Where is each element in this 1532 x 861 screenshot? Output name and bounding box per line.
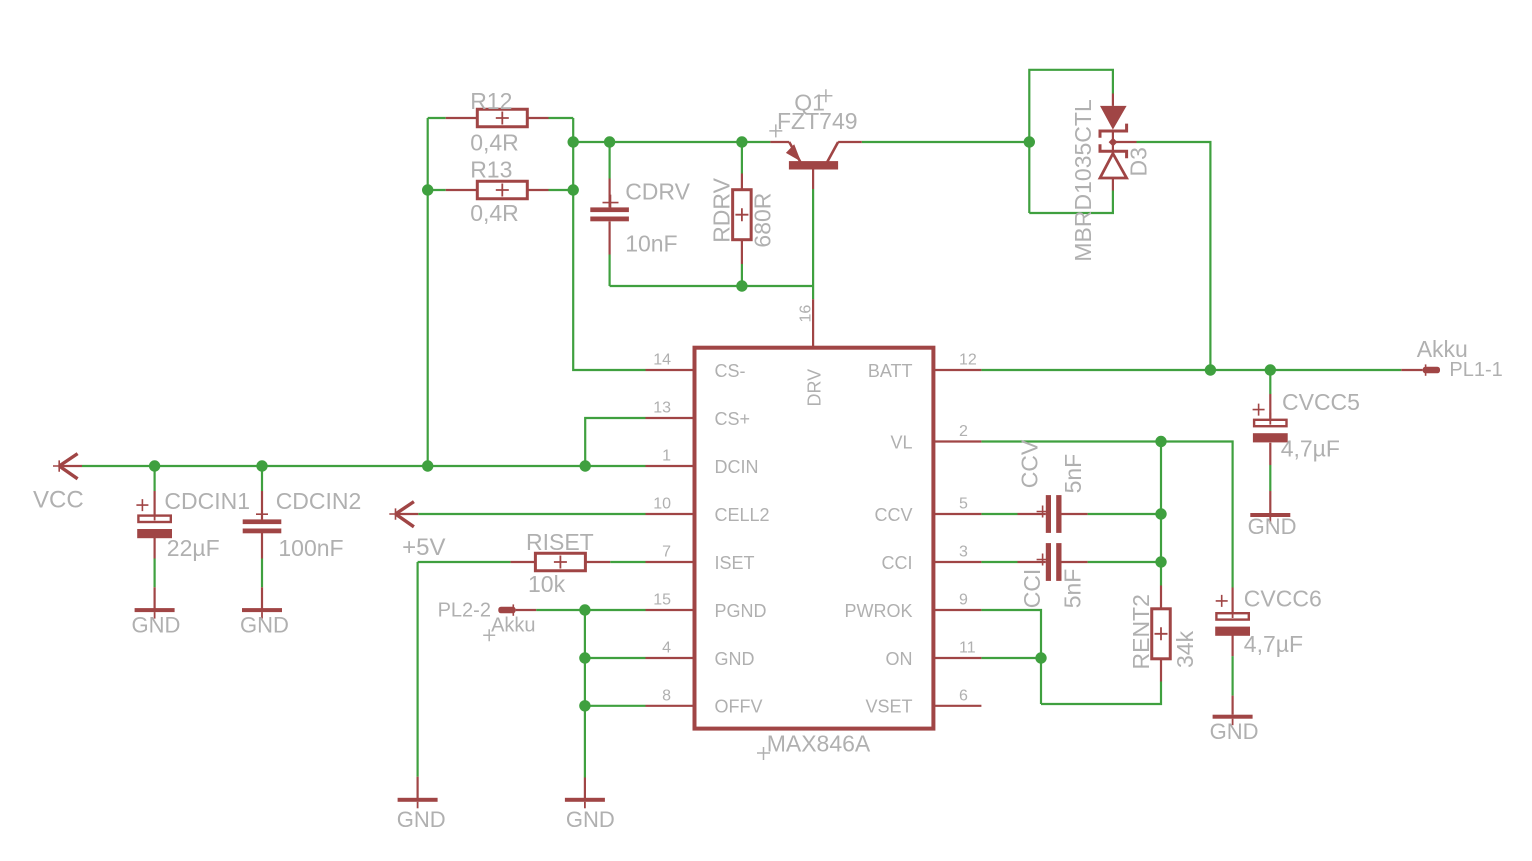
pin 7 ISET stub	[646, 561, 695, 563]
capacitor CVCC6 (polarized)	[1215, 606, 1250, 636]
resistor R12	[477, 109, 527, 127]
lead D3 mid	[1112, 132, 1114, 151]
svg-text:PWROK: PWROK	[844, 601, 912, 621]
junction R13 right	[568, 184, 579, 195]
lead CDRV top	[608, 179, 610, 208]
lead RENT2 top	[1160, 586, 1162, 610]
pin 13 CS+ stub	[646, 417, 695, 419]
svg-text:GND: GND	[1210, 719, 1259, 744]
diode D3 MBRD1035CTL upper (filled)	[1100, 106, 1127, 138]
svg-text:14: 14	[653, 352, 671, 369]
svg-text:GND: GND	[132, 613, 181, 638]
capacitor CDCIN2	[243, 519, 282, 533]
capacitor CDCIN1 (polarized)	[137, 508, 172, 538]
PL2-2 origin cross (gray)	[483, 629, 495, 641]
wire CS+ down to rail	[585, 418, 645, 466]
svg-text:7: 7	[662, 544, 671, 561]
svg-text:13: 13	[653, 400, 671, 417]
wire ON row	[981, 657, 1041, 659]
svg-text:3: 3	[959, 544, 968, 561]
wire CVCC5 bottom	[1269, 465, 1271, 491]
wire R13 right lead net	[549, 189, 574, 191]
svg-text:2: 2	[959, 423, 968, 440]
svg-text:Akku: Akku	[491, 614, 535, 636]
lead R12 right	[527, 117, 548, 119]
svg-text:BATT: BATT	[868, 361, 913, 381]
svg-text:4: 4	[662, 640, 671, 657]
wire CDCIN1 top	[154, 466, 156, 491]
wire CDRV top	[608, 142, 610, 179]
svg-text:5nF: 5nF	[1060, 569, 1086, 609]
svg-text:CDCIN1: CDCIN1	[164, 488, 250, 514]
wire DRV emitter net	[573, 141, 770, 143]
lead D3 tap	[1113, 141, 1137, 143]
wire CCV right	[1088, 513, 1161, 515]
junction ON-PWROK	[1035, 652, 1046, 663]
connector PL2-2 pin	[498, 604, 515, 615]
ground (below RISET)	[398, 798, 438, 809]
wire D3 frame left	[1029, 70, 1113, 213]
wire CDCIN2 top	[261, 466, 263, 491]
svg-text:RDRV: RDRV	[709, 177, 735, 242]
svg-text:CCI: CCI	[882, 553, 913, 573]
junction DRV-RDRV	[736, 136, 747, 147]
Q1 origin crosses (gray)	[769, 89, 832, 137]
lead CDCIN1 bottom	[154, 538, 156, 559]
svg-text:MBRD1035CTL: MBRD1035CTL	[1070, 99, 1096, 262]
capacitor CVCC5 (polarized)	[1253, 413, 1288, 443]
wire CDRV bottom	[608, 255, 610, 287]
lead GND below ISET	[417, 777, 419, 798]
pin 10 CELL2 stub	[646, 513, 695, 515]
resistor RISET	[535, 553, 585, 571]
junction DRV-CDRV	[604, 136, 615, 147]
svg-text:22µF: 22µF	[167, 535, 220, 561]
pin 9 PWROK stub	[933, 609, 981, 611]
lead CVCC6 top	[1231, 588, 1233, 613]
pin 5 CCV stub	[933, 513, 981, 515]
transistor Q1 FZT749 (PNP)	[786, 142, 862, 189]
svg-text:ON: ON	[886, 649, 913, 669]
junction R13 left	[422, 184, 433, 195]
lead CDCIN2 gnd	[261, 587, 263, 608]
junction DRV-R12	[568, 136, 579, 147]
wire Q1 base to DRV pin	[812, 189, 814, 299]
svg-text:DCIN: DCIN	[715, 457, 759, 477]
pin 2 VL stub	[933, 440, 981, 442]
lead RISET right	[586, 561, 610, 563]
junction RDRV bottom	[736, 280, 747, 291]
svg-text:10k: 10k	[528, 571, 566, 597]
junction CCV right	[1155, 508, 1166, 519]
svg-text:OFFV: OFFV	[715, 697, 763, 717]
lead CVCC6 gnd	[1231, 696, 1233, 715]
lead CDCIN1 gnd	[154, 587, 156, 608]
wire CCV left	[981, 513, 1017, 515]
lead D3 top	[1112, 94, 1114, 106]
lead PL2-2	[516, 609, 537, 611]
svg-text:4,7µF: 4,7µF	[1281, 436, 1340, 462]
svg-text:GND: GND	[240, 613, 289, 638]
wire D3 tap to BATT	[1137, 142, 1211, 370]
svg-text:16: 16	[798, 305, 815, 323]
ground (CDCIN1)	[135, 608, 175, 619]
resistor RENT2	[1152, 609, 1171, 659]
wire collector to D3	[862, 141, 1030, 143]
svg-text:15: 15	[653, 592, 671, 609]
junction VCC-R vertical	[422, 460, 433, 471]
lead CDCIN2 bottom	[261, 533, 263, 559]
svg-text:11: 11	[959, 640, 976, 657]
lead CCV right	[1061, 513, 1087, 515]
svg-text:PL2-2: PL2-2	[438, 599, 491, 621]
svg-text:5: 5	[959, 496, 968, 513]
pin 14 CS- stub	[646, 369, 695, 371]
lead Q1 emitter horiz	[770, 141, 789, 143]
wire bottom route to RENT2	[1041, 682, 1161, 705]
wire CDCIN2 bottom	[261, 559, 263, 588]
svg-text:DRV: DRV	[805, 369, 825, 407]
lead RISET left	[511, 561, 535, 563]
svg-text:RISET: RISET	[526, 529, 594, 555]
junction VCC-CDCIN1	[149, 460, 160, 471]
junction PGND-PL2-2	[579, 604, 590, 615]
wire CVCC5 top	[1269, 370, 1271, 394]
lead CVCC5 top	[1269, 394, 1271, 419]
supply arrow +5V	[389, 502, 418, 527]
svg-text:RENT2: RENT2	[1128, 594, 1154, 669]
junction BATT-D3 tap	[1205, 364, 1216, 375]
svg-text:CS-: CS-	[715, 361, 746, 381]
op-amp U1 MAX846A body	[695, 348, 934, 729]
svg-text:12: 12	[959, 352, 977, 369]
svg-text:GND: GND	[1248, 514, 1297, 539]
junction VL vertical	[1155, 436, 1166, 447]
pin 6 VSET stub	[933, 705, 981, 707]
lead R13 left	[446, 189, 478, 191]
wire CDRV-RDRV bottom rail	[610, 285, 814, 287]
capacitor CDRV	[590, 207, 629, 221]
wire R12 left lead net	[428, 117, 446, 119]
svg-text:1: 1	[662, 448, 671, 465]
lead PL1-1	[1401, 369, 1422, 371]
svg-text:100nF: 100nF	[278, 535, 343, 561]
svg-text:VSET: VSET	[865, 697, 912, 717]
wire GND pin row	[585, 657, 646, 659]
wire RDRV top	[741, 142, 743, 174]
ground (CVCC6)	[1213, 715, 1253, 726]
svg-text:34k: 34k	[1172, 630, 1198, 668]
pin 1 DCIN stub	[646, 465, 695, 467]
supply arrow VCC	[53, 454, 82, 479]
svg-text:CDCIN2: CDCIN2	[276, 488, 362, 514]
lead RDRV bottom	[741, 240, 743, 264]
svg-text:PGND: PGND	[715, 601, 767, 621]
wire PGND vertical to GND	[584, 610, 586, 778]
svg-text:CVCC6: CVCC6	[1244, 585, 1322, 611]
wire RDRV bottom	[741, 264, 743, 286]
pin 4 GND stub	[646, 657, 695, 659]
svg-text:0,4R: 0,4R	[470, 200, 519, 226]
svg-text:PL1-1: PL1-1	[1449, 359, 1502, 381]
pin 11 ON stub	[933, 657, 981, 659]
svg-text:GND: GND	[566, 807, 615, 832]
svg-text:ISET: ISET	[715, 553, 755, 573]
wire CDCIN1 bottom	[154, 559, 156, 588]
svg-text:CELL2: CELL2	[715, 505, 770, 525]
junction CCI right	[1155, 556, 1166, 567]
svg-text:CDRV: CDRV	[625, 179, 690, 205]
ground (below PGND)	[565, 798, 605, 809]
svg-text:8: 8	[662, 687, 671, 704]
wire VL-CCV-CCI vertical	[1160, 442, 1162, 586]
wire ISET row	[418, 561, 511, 563]
wire PWROK route	[981, 610, 1041, 704]
svg-text:CCV: CCV	[1016, 439, 1042, 488]
wire ISET corner to GND	[417, 562, 419, 777]
IC origin cross	[757, 747, 770, 760]
svg-text:FZT749: FZT749	[777, 108, 858, 134]
svg-text:Akku: Akku	[1417, 336, 1468, 362]
svg-text:R13: R13	[470, 157, 512, 183]
junction VCC-CDCIN2	[256, 460, 267, 471]
svg-text:GND: GND	[715, 649, 755, 669]
wire CVCC6 bottom	[1231, 656, 1233, 696]
pin 3 CCI stub	[933, 561, 981, 563]
svg-text:10: 10	[653, 496, 671, 513]
wire +5V to CELL2	[418, 513, 645, 515]
lead CCI left	[1018, 561, 1046, 563]
svg-text:GND: GND	[397, 807, 446, 832]
junction OFFV pin	[579, 700, 590, 711]
wire R12 right lead net	[549, 117, 574, 119]
svg-text:R12: R12	[470, 88, 512, 114]
lead CVCC5 bottom	[1269, 443, 1271, 465]
pin 12 BATT stub	[933, 369, 981, 371]
junction VCC-CS+	[580, 460, 591, 471]
svg-text:5nF: 5nF	[1060, 454, 1086, 494]
svg-text:CCV: CCV	[874, 505, 912, 525]
resistor R13	[477, 181, 527, 199]
svg-text:VCC: VCC	[33, 487, 84, 514]
lead DRV pin 16	[812, 299, 814, 348]
wire VCC rail	[82, 465, 646, 467]
svg-text:MAX846A: MAX846A	[767, 731, 871, 757]
pin 8 OFFV stub	[646, 705, 695, 707]
wire R13 left lead net	[428, 189, 446, 191]
svg-text:D3: D3	[1125, 147, 1151, 176]
wire OFFV pin row	[585, 705, 646, 707]
wire left vertical R12-R13-DCIN	[427, 118, 429, 466]
capacitor CCI	[1046, 543, 1062, 581]
wire RISET to ISET pin	[610, 561, 645, 563]
junction collector-D3	[1024, 136, 1035, 147]
svg-text:CCI: CCI	[1019, 569, 1045, 609]
svg-text:6: 6	[959, 687, 968, 704]
svg-text:9: 9	[959, 592, 968, 609]
connector PL1-1 pin	[1423, 364, 1440, 375]
svg-text:10nF: 10nF	[625, 231, 677, 257]
lead RENT2 bottom	[1160, 658, 1162, 682]
svg-text:4,7µF: 4,7µF	[1244, 631, 1303, 657]
pin 15 PGND stub	[646, 609, 695, 611]
lead CVCC6 bottom	[1231, 634, 1233, 656]
svg-text:CVCC5: CVCC5	[1282, 389, 1360, 415]
wire CCI left	[981, 561, 1017, 563]
lead GND below PGND	[584, 778, 586, 799]
capacitor CCV	[1046, 495, 1062, 533]
junction GND pin	[579, 652, 590, 663]
lead CDCIN2 top	[261, 491, 263, 519]
svg-text:CS+: CS+	[715, 409, 751, 429]
ground (CDCIN2)	[242, 608, 282, 619]
wire BATT row	[981, 369, 1401, 371]
svg-text:680R: 680R	[749, 193, 775, 248]
resistor RDRV	[733, 190, 752, 240]
wire D3 frame bottom	[1029, 191, 1113, 214]
svg-text:0,4R: 0,4R	[470, 130, 519, 156]
svg-text:+5V: +5V	[402, 534, 445, 561]
junction BATT-CVCC5	[1265, 364, 1276, 375]
lead CVCC5 gnd	[1269, 491, 1271, 513]
wire right vertical R12-R13-CS-	[573, 118, 645, 370]
diode D3 lower (hollow)	[1100, 144, 1127, 178]
wire VL row	[981, 442, 1232, 588]
lead R12 left	[446, 117, 478, 119]
wire CCI right	[1088, 561, 1161, 563]
lead R13 right	[527, 189, 548, 191]
lead CDCIN1 top	[154, 491, 156, 515]
lead RDRV top	[741, 174, 743, 190]
D3 mid tap diamond	[1109, 138, 1118, 147]
wire PL2-2 to PGND	[536, 609, 645, 611]
lead D3 bottom	[1112, 179, 1114, 191]
lead CCV left	[1018, 513, 1046, 515]
lead CCI right	[1061, 561, 1087, 563]
lead CDRV bottom	[608, 221, 610, 254]
svg-text:VL: VL	[890, 432, 912, 452]
ground (CVCC5)	[1250, 513, 1290, 524]
